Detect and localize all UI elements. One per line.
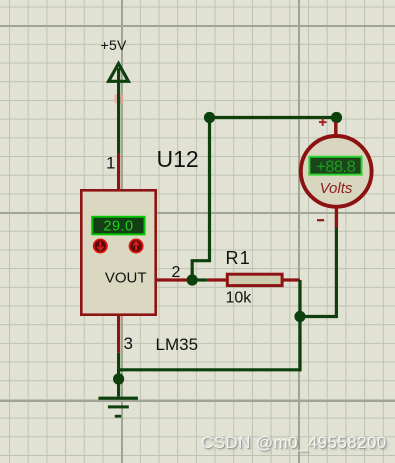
voltmeter + sign bbox=[319, 118, 327, 126]
power symbol +5V arrow bbox=[109, 64, 129, 82]
voltmeter top terminal stub (red) bbox=[334, 122, 338, 137]
power label +5V bbox=[101, 37, 128, 53]
svg-text:2: 2 bbox=[172, 264, 181, 281]
label R1 bbox=[226, 248, 251, 268]
pin 1 stub (red) bbox=[117, 154, 120, 191]
voltmeter bottom terminal stub (red) bbox=[335, 207, 338, 228]
svg-text:Volts: Volts bbox=[320, 180, 353, 197]
svg-text:3: 3 bbox=[124, 334, 133, 353]
junction D bbox=[294, 311, 305, 322]
component U12 LM35 body bbox=[81, 190, 155, 314]
pin number 1 bbox=[106, 154, 115, 173]
wire: vertical from junction A with jog to junction B bbox=[192, 118, 209, 281]
svg-text:VOUT: VOUT bbox=[105, 270, 147, 287]
wire: junction B to resistor (green part) bbox=[192, 278, 208, 281]
button up bbox=[130, 239, 143, 252]
ground symbol bbox=[98, 397, 137, 418]
svg-text:+88.8: +88.8 bbox=[316, 158, 356, 176]
label LM35 bbox=[156, 335, 199, 354]
svg-text:+5V: +5V bbox=[101, 37, 128, 53]
voltmeter unit label Volts bbox=[320, 180, 353, 197]
LCD display 29.0 bbox=[92, 217, 144, 235]
svg-text:29.0: 29.0 bbox=[103, 219, 133, 235]
resistor R1 body bbox=[227, 274, 282, 285]
svg-text:10k: 10k bbox=[226, 290, 253, 307]
pin 3 stub (red) bbox=[117, 315, 120, 353]
junction E at ground bbox=[113, 373, 124, 384]
junction C at voltmeter + bbox=[331, 112, 342, 123]
pin number 2 bbox=[172, 264, 181, 281]
wire: resistor to bottom rail (green vertical) bbox=[298, 280, 301, 371]
pink origin marker on wire bbox=[114, 94, 123, 103]
voltmeter body bbox=[301, 136, 372, 207]
wire: bottom rail to ground bbox=[117, 368, 302, 371]
svg-text:LM35: LM35 bbox=[156, 335, 199, 354]
voltmeter LCD +88.8 bbox=[309, 157, 361, 176]
label U12 bbox=[157, 146, 199, 172]
junction B bbox=[187, 274, 198, 285]
wire: +5V arrow to pin 1 (green) bbox=[117, 68, 120, 154]
resistor R1 right pin stub (red) bbox=[284, 278, 301, 281]
pin name VOUT bbox=[105, 270, 147, 287]
pin number 3 bbox=[124, 334, 133, 353]
voltmeter - sign bbox=[317, 219, 324, 221]
svg-text:R1: R1 bbox=[226, 248, 251, 268]
resistor R1 left pin stub (red) bbox=[208, 278, 227, 281]
wire: junction A to voltmeter + terminal bbox=[210, 116, 337, 119]
junction A bbox=[204, 112, 215, 123]
button down bbox=[94, 239, 107, 252]
wire: pin 3 to ground (green) bbox=[117, 353, 120, 397]
value label 10k bbox=[226, 290, 253, 307]
svg-text:U12: U12 bbox=[157, 146, 199, 172]
svg-text:1: 1 bbox=[106, 154, 115, 173]
wire: junction D to voltmeter - branch bbox=[300, 228, 336, 317]
pin 2 stub (red) bbox=[156, 278, 192, 281]
